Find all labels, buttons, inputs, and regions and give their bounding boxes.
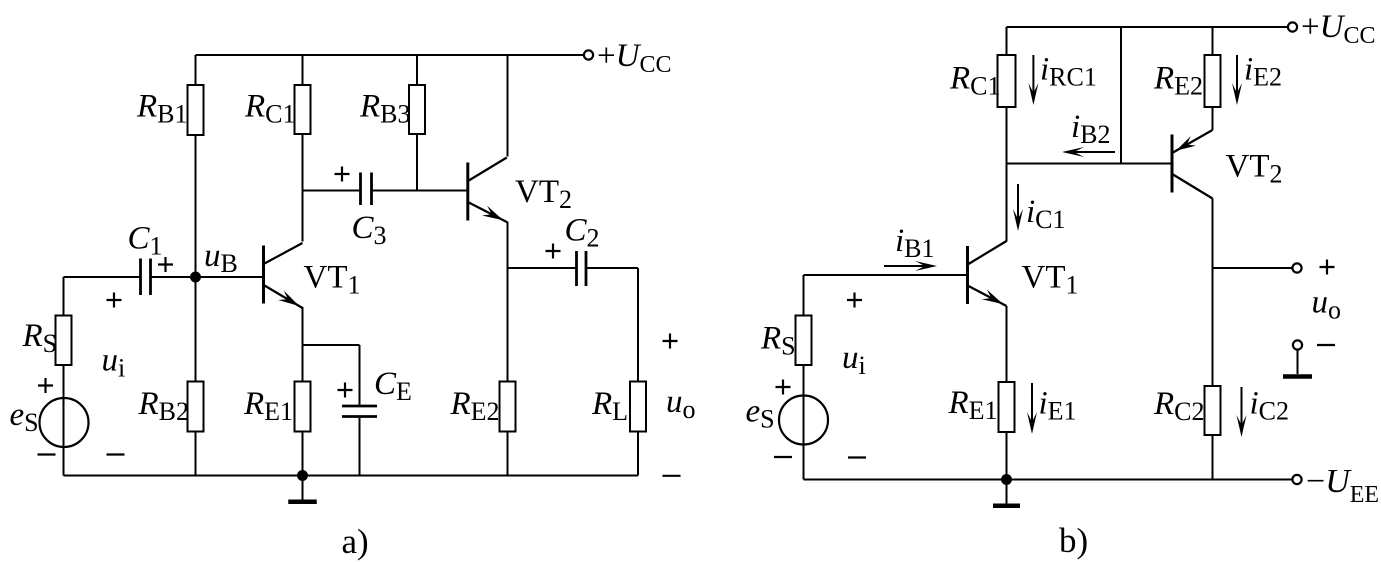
svg-text:uB: uB (204, 238, 238, 278)
svg-text:iRC1: iRC1 (1040, 52, 1097, 92)
svg-text:eS: eS (746, 394, 775, 434)
svg-text:RE2: RE2 (1153, 60, 1203, 100)
svg-text:iB2: iB2 (1071, 109, 1111, 149)
svg-text:C2: C2 (565, 213, 600, 253)
svg-text:ui: ui (102, 343, 126, 383)
svg-text:iC1: iC1 (1026, 194, 1066, 234)
svg-text:VT1: VT1 (304, 260, 361, 300)
svg-text:RC1: RC1 (244, 88, 296, 128)
svg-text:RE1: RE1 (243, 386, 293, 426)
svg-text:ui: ui (842, 340, 866, 380)
svg-text:VT2: VT2 (515, 174, 572, 214)
svg-text:eS: eS (10, 397, 39, 437)
svg-text:RE1: RE1 (948, 385, 998, 425)
svg-text:b): b) (1059, 521, 1088, 560)
svg-text:VT1: VT1 (1022, 260, 1079, 300)
svg-text:CE: CE (374, 366, 412, 406)
svg-text:RB3: RB3 (359, 88, 411, 128)
svg-text:RL: RL (591, 386, 628, 426)
svg-text:uo: uo (1312, 285, 1342, 325)
svg-text:RS: RS (760, 321, 796, 361)
svg-text:RC1: RC1 (949, 60, 1001, 100)
svg-text:uo: uo (666, 384, 696, 424)
svg-text:C3: C3 (352, 210, 387, 250)
svg-text:RB2: RB2 (138, 386, 190, 426)
svg-text:+UCC: +UCC (597, 38, 671, 78)
svg-text:−UEE: −UEE (1306, 463, 1379, 508)
svg-text:iE1: iE1 (1039, 386, 1077, 426)
svg-text:iE2: iE2 (1244, 52, 1282, 92)
svg-text:RE2: RE2 (450, 386, 500, 426)
svg-text:a): a) (342, 522, 369, 561)
svg-text:VT2: VT2 (1226, 149, 1283, 189)
svg-text:C1: C1 (128, 221, 163, 261)
svg-text:RS: RS (22, 318, 58, 358)
svg-text:+UCC: +UCC (1301, 9, 1375, 49)
svg-text:RC2: RC2 (1153, 386, 1205, 426)
svg-text:RB1: RB1 (136, 88, 188, 128)
svg-text:iC2: iC2 (1250, 386, 1290, 426)
svg-text:iB1: iB1 (895, 223, 935, 263)
